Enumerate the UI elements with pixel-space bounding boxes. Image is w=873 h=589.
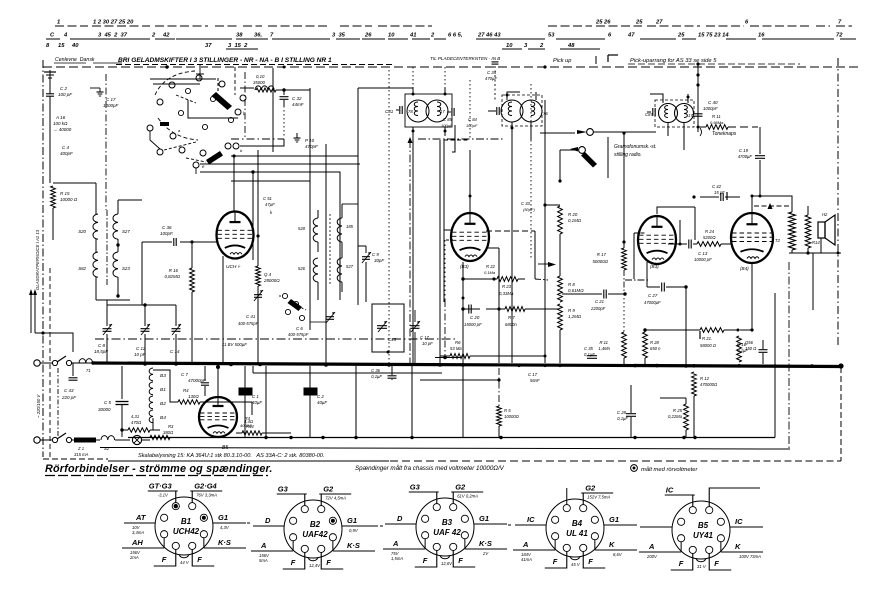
wire ot top [752,196,792,212]
svg-text:36,: 36, [254,33,262,39]
resistor R28 [643,332,648,358]
wire osc bottom [317,242,319,252]
capacitor C47 [726,192,728,200]
wire sw v231 [230,156,232,172]
border right dashed [837,58,839,345]
svg-text:72V 4,5mA: 72V 4,5mA [325,496,346,501]
svg-text:4,3V: 4,3V [220,525,230,530]
svg-text:185: 185 [346,224,354,229]
resistor R20 [558,206,563,234]
wire pick column [697,64,699,132]
svg-text:A: A [522,540,528,549]
wire c28 top [570,384,631,386]
wire coils mid [95,239,97,252]
svg-text:A 16: A 16 [55,115,66,120]
svg-text:(B3): (B3) [460,264,469,269]
svg-text:41: 41 [409,33,416,39]
svg-text:15: 15 [58,43,65,49]
wire B2 plate [469,195,472,198]
svg-text:~ 220/150 V: ~ 220/150 V [36,394,41,418]
svg-text:1 2 30 27 25 20: 1 2 30 27 25 20 [93,20,134,26]
svg-text:C 5: C 5 [104,400,112,405]
varcap C6 [326,316,334,318]
capacitor C19 [755,155,765,157]
fuse Z1 [74,438,96,443]
wire h-452 [452,140,470,152]
gram wire corner [559,150,561,181]
tube socket B2 UAF42 [284,500,342,558]
svg-text:F: F [423,556,428,565]
svg-text:470pF: 470pF [305,144,318,149]
svg-text:0,1MΩ: 0,1MΩ [568,218,582,223]
svg-text:C 6: C 6 [296,326,303,331]
capacitor C42b [699,331,701,339]
rail lower [128,437,775,439]
varcap C45 [377,325,387,327]
resistor R15 [51,186,56,208]
svg-text:R 22: R 22 [486,264,496,269]
svg-text:R 11: R 11 [599,340,608,345]
svg-text:17: 17 [440,109,445,114]
wire speaker [820,238,822,253]
svg-text:37: 37 [205,43,212,49]
svg-text:2200pF: 2200pF [590,306,606,311]
svg-text:100µF: 100µF [466,123,478,128]
svg-text:6800n: 6800n [505,322,517,327]
wire B4 plate [751,196,753,213]
svg-text:R6: R6 [455,340,461,345]
border right lower dashed [840,367,842,461]
svg-text:→ 40000: → 40000 [53,127,72,132]
svg-text:UCH42: UCH42 [173,527,200,536]
wire v273 [272,68,274,152]
capacitor C1 [239,388,252,395]
svg-text:F: F [588,557,593,566]
mains terminal lower [34,437,40,443]
svg-text:0,1Ma: 0,1Ma [484,270,496,275]
svg-text:28000Ω: 28000Ω [263,278,280,283]
svg-text:Toneknaps: Toneknaps [712,131,737,137]
border bottom-right dashed [690,460,841,462]
note rorvoltmeter [631,465,638,472]
svg-text:R 12: R 12 [700,376,710,381]
tube socket B3 UAF42 [416,498,474,556]
svg-text:10000 Ω: 10000 Ω [60,197,78,202]
wire pot [559,234,561,276]
resistor R25 [684,404,689,430]
svg-text:1,5mA: 1,5mA [391,556,403,561]
svg-text:UAF 42: UAF 42 [433,528,461,537]
svg-text:G2·G4: G2·G4 [194,482,217,491]
wire trimmer top rail [107,304,176,306]
wire coils bottom [95,277,97,300]
capacitor C7 [204,366,206,381]
capacitor C28 [626,413,636,415]
svg-text:K: K [609,540,615,549]
tube B4 [731,213,773,263]
svg-text:R 23: R 23 [502,284,512,289]
svg-text:315 mA: 315 mA [74,452,89,457]
svg-text:10: 10 [506,43,513,49]
switch lower wedge [206,151,223,165]
IF transformer T1 [407,100,429,122]
svg-text:UAF42: UAF42 [302,530,328,539]
wire C21 down dotted [623,294,625,332]
svg-text:30pF: 30pF [374,258,384,263]
junction [410,436,413,439]
svg-text:F: F [714,559,719,568]
svg-text:27 46 43: 27 46 43 [477,33,501,39]
svg-text:R4: R4 [245,416,251,421]
svg-text:47: 47 [627,33,635,39]
svg-text:47000µF: 47000µF [644,300,661,305]
svg-text:0,1µF: 0,1µF [371,374,382,379]
capacitor C27 [661,283,663,292]
svg-text:130Ω: 130Ω [188,394,199,399]
tube socket B1 UCH42 [155,497,213,555]
svg-text:40µF: 40µF [317,400,327,405]
wire R15 to coils [53,182,96,184]
coil 185 [337,218,342,242]
svg-text:UCH ⊦: UCH ⊦ [226,264,241,270]
fuse coil upper [79,359,93,363]
svg-text:C 36: C 36 [371,368,381,373]
svg-text:(B3): (B3) [650,264,659,269]
choke B4 [149,410,153,423]
choke B3 [149,368,153,381]
svg-text:C 84: C 84 [468,117,478,122]
svg-text:47µF: 47µF [265,202,275,207]
capacitor C42 [720,193,722,201]
svg-text:G1: G1 [479,514,489,523]
svg-text:R 28: R 28 [650,340,660,345]
svg-text:R 24: R 24 [705,229,715,234]
wire sw h1 [150,78,216,80]
svg-text:Rörforbindelser - strömme og s: Rörforbindelser - strömme og spændinger. [45,463,273,475]
variable capacitor C14 [172,328,181,330]
svg-text:Gramofonumsk.-st.: Gramofonumsk.-st. [614,144,657,150]
svg-text:C 2: C 2 [317,394,324,399]
svg-text:UY41: UY41 [693,531,714,540]
gang dash-dot link [95,338,455,340]
dial lamp [132,435,141,444]
svg-text:200V: 200V [646,554,658,559]
svg-text:4700µF: 4700µF [738,154,753,159]
dash arrow row [754,205,790,207]
svg-text:A: A [648,542,654,551]
resistor R5 [497,406,502,426]
svg-text:K·S: K·S [218,538,231,547]
svg-text:T2: T2 [775,238,781,243]
svg-text:F: F [679,559,684,568]
svg-text:UL 41: UL 41 [566,529,588,538]
svg-text:C 28: C 28 [617,410,627,415]
coil S27 [113,214,118,239]
svg-text:C 13: C 13 [698,251,708,256]
svg-text:C 27: C 27 [648,293,658,298]
tube socket B5 UY41 [672,501,730,559]
svg-text:IC: IC [527,515,535,524]
svg-text:10 pF: 10 pF [422,341,433,346]
tube B3 [638,216,676,264]
svg-text:470000Ω: 470000Ω [700,382,718,387]
wire B5 plate [217,367,219,397]
svg-text:30000: 30000 [98,407,111,412]
svg-text:BRI GELADMSKIFTER I 3 STILLING: BRI GELADMSKIFTER I 3 STILLINGER - NR - … [118,57,332,64]
rail return [100,448,790,450]
resistor R16 [190,268,195,292]
wire col 519 [518,152,520,196]
svg-text:470Ω: 470Ω [131,420,142,425]
svg-text:470µF: 470µF [485,76,497,81]
svg-text:12,6V: 12,6V [441,561,453,566]
switch mid circles [147,125,153,131]
svg-text:A: A [260,541,266,550]
svg-text:50000Ω: 50000Ω [592,259,608,264]
svg-text:F: F [162,555,167,564]
coil S23 [113,252,118,277]
socket B2 pin marks [331,519,335,523]
svg-text:C87: C87 [645,112,653,117]
wire 130 frame [153,370,178,402]
svg-text:B2: B2 [160,401,166,407]
svg-text:76: 76 [543,111,548,116]
svg-text:S2: S2 [104,446,110,451]
svg-text:R3: R3 [168,424,174,429]
svg-text:0,9V: 0,9V [349,528,359,533]
capacitor C20 [468,305,470,314]
T2 leads [507,92,520,100]
svg-text:K·S: K·S [347,541,360,550]
svg-text:R 8: R 8 [568,282,575,287]
wire det dashdot 445 [444,240,446,300]
tube socket B4 UL41 [546,499,604,557]
svg-text:3,4mA: 3,4mA [132,530,144,535]
svg-text:Z 1: Z 1 [77,446,84,451]
border bottom dashed [43,458,108,460]
svg-text:44 V: 44 V [180,560,190,565]
svg-text:C45: C45 [388,337,397,342]
svg-text:3 45 2 37: 3 45 2 37 [98,33,128,39]
svg-text:10 pF: 10 pF [134,352,146,357]
wire B1 cath down [222,256,224,363]
aerial lead-in arrows [30,292,32,333]
svg-text:5mA: 5mA [259,558,268,563]
wire antenna down [49,108,51,183]
junction [693,436,696,439]
svg-text:S82: S82 [78,266,86,271]
svg-text:AT: AT [135,513,147,522]
svg-text:27: 27 [655,20,663,26]
pot arrow [548,262,556,267]
svg-text:C 41: C 41 [246,314,256,319]
svg-text:17: 17 [688,113,693,118]
svg-text:R 21.: R 21. [702,336,712,341]
wire B3 plate [657,207,695,214]
wire col 512 [511,133,513,363]
resistor R4 28000 [256,266,261,286]
svg-text:Spændinger målt fra chassis me: Spændinger målt fra chassis med voltmete… [355,465,505,472]
wire B3 grid left [634,232,646,234]
junction [682,436,685,439]
svg-text:R 20: R 20 [568,212,578,217]
wire B2 k [486,247,499,249]
svg-text:B4: B4 [160,415,166,421]
svg-text:stilling radio.: stilling radio. [614,152,642,158]
gram divider [607,137,609,178]
capacitor C40 [694,113,703,115]
core dash osc [329,214,331,286]
svg-text:(B4): (B4) [740,266,749,271]
wire choke bottom [152,418,154,430]
border left dash-dot [42,60,44,457]
wire B2 grid col [534,231,536,279]
svg-text:10000 pF: 10000 pF [694,257,712,262]
switch lower cluster [157,149,163,155]
box C45 [372,304,404,352]
wire sw h3 [231,138,284,140]
switch leads [150,131,160,149]
core dash S20/S27 [106,210,108,285]
svg-text:S27: S27 [122,229,130,234]
coil 528 [313,218,318,242]
svg-text:målt med rörvoltmeter: målt med rörvoltmeter [641,466,698,473]
speaker [818,222,825,238]
svg-text:1,2MΩ: 1,2MΩ [568,314,582,319]
wire corner 444 [444,139,470,141]
svg-text:R 9: R 9 [568,308,575,313]
resistor R21 [700,328,724,333]
svg-text:0,96Ma: 0,96Ma [710,120,724,125]
svg-text:F: F [458,556,463,565]
gram switch lower [570,147,578,152]
svg-text:15000 pF: 15000 pF [464,322,482,327]
svg-text:B4: B4 [572,519,583,528]
svg-text:400-575pF: 400-575pF [238,321,259,326]
IF transformer T3 [659,104,678,123]
svg-text:C 42: C 42 [712,184,722,189]
tube B2 [451,213,489,261]
svg-text:3 15 2: 3 15 2 [228,43,248,49]
svg-text:-3,1V: -3,1V [158,493,169,498]
wire rail corner up [774,293,776,438]
svg-text:100 kΩ: 100 kΩ [53,121,68,126]
resistor R11b [622,332,627,358]
svg-text:100µF: 100µF [441,123,453,128]
wire bus h164 [200,163,360,165]
wire B4 cathode down [751,263,753,330]
switch rotor wedge [212,92,233,110]
svg-text:C 16: C 16 [737,342,747,347]
svg-text:F: F [326,558,331,567]
capacitor C43 [72,363,74,376]
svg-text:G2: G2 [455,483,466,492]
svg-text:C 17: C 17 [528,372,538,377]
svg-text:100pF.: 100pF. [160,231,173,236]
svg-text:152V 7,5mA: 152V 7,5mA [587,495,610,500]
wire vdotted 531 [530,84,532,258]
wire bus h181 [231,180,310,182]
svg-text:0,10: 0,10 [256,74,265,79]
svg-text:1000pF: 1000pF [703,106,718,111]
resistor R7 [505,307,525,312]
bus wire main [93,363,841,367]
svg-text:S20: S20 [78,229,86,234]
svg-text:C 7: C 7 [181,372,189,377]
svg-text:41mA: 41mA [521,557,532,562]
svg-text:40: 40 [71,43,79,49]
resistor R24 [697,242,721,247]
svg-text:26: 26 [364,33,372,39]
switch lower dashes [164,142,196,150]
svg-text:528: 528 [298,226,306,231]
variable capacitor C12 [141,328,150,330]
svg-text:56nF: 56nF [530,378,540,383]
svg-text:380Ω: 380Ω [163,430,174,435]
wire v470 dotted [469,80,471,140]
T3 leads [650,94,663,103]
wire right v698 [697,132,699,144]
svg-text:B2: B2 [310,520,321,529]
capacitor C85 [451,108,453,116]
coil S20 [93,214,98,239]
wire rail right corner [812,253,814,310]
svg-text:R 17: R 17 [597,252,607,257]
wire B3 cathode [646,262,648,287]
switch stem dash [199,70,201,76]
wire B1 plate [233,156,235,212]
svg-text:38: 38 [236,33,243,39]
svg-text:400-575pF: 400-575pF [288,332,309,337]
choke B2 [149,396,153,409]
wire R5 [498,368,500,406]
wire B4 grid top [679,220,681,244]
svg-text:C 32: C 32 [292,96,302,101]
capacitor C13 [688,240,690,249]
svg-text:B1: B1 [181,517,192,526]
svg-text:A: A [392,539,398,548]
fuse coil lower [101,436,115,440]
svg-text:C 17: C 17 [106,97,116,102]
svg-text:71: 71 [86,368,91,373]
svg-text:53 Ma: 53 Ma [450,346,462,351]
pickup dashdot v788 [788,262,790,449]
svg-text:C 8: C 8 [98,343,106,348]
coil S82 [93,252,98,277]
svg-text:40µF: 40µF [252,400,262,405]
resistor R11 [706,125,728,130]
capacitor C32 [283,90,285,95]
svg-text:G1: G1 [609,515,619,524]
svg-text:K: K [735,542,741,551]
antenna terminal [49,70,51,80]
IF transformer T2 [501,100,523,122]
svg-text:12,4V: 12,4V [309,563,321,568]
switch toneknap [700,128,702,136]
svg-text:42: 42 [162,33,170,39]
tube B1 [217,212,254,259]
border top dashed [43,66,860,68]
svg-text:R 16: R 16 [169,268,179,273]
svg-text:C 1: C 1 [252,394,259,399]
resistor 130ohm [178,400,200,404]
wire gram down [544,100,546,133]
resistor R8 [558,276,563,302]
capacitor C16 [759,349,768,351]
wire mixer to T1 [357,88,359,305]
svg-text:B3: B3 [442,518,453,527]
svg-text:C 2: C 2 [60,86,68,91]
